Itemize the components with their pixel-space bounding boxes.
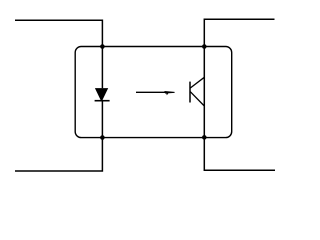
light arrow head — [164, 91, 174, 95]
wire LED cathode — [101, 100, 103, 137]
LED D1 — [95, 88, 110, 101]
wire collector-emitter vertical — [203, 47, 205, 138]
node anode junction — [100, 44, 105, 49]
wire pin2 bottom-left lead — [15, 138, 102, 172]
node emitter junction — [202, 135, 207, 140]
light arrow shaft — [136, 91, 168, 93]
optocoupler package U1 — [75, 47, 232, 138]
phototransistor Q1 base bar — [189, 82, 191, 103]
wire LED anode — [101, 47, 103, 89]
wire pin3 bottom-right lead — [204, 137, 275, 170]
node cathode junction — [100, 135, 105, 140]
node collector junction — [202, 44, 207, 49]
phototransistor Q1 emitter — [190, 92, 204, 106]
wire pin1 top-left lead — [15, 20, 102, 46]
wire pin4 top-right lead — [204, 19, 274, 46]
phototransistor Q1 collector — [190, 77, 204, 88]
